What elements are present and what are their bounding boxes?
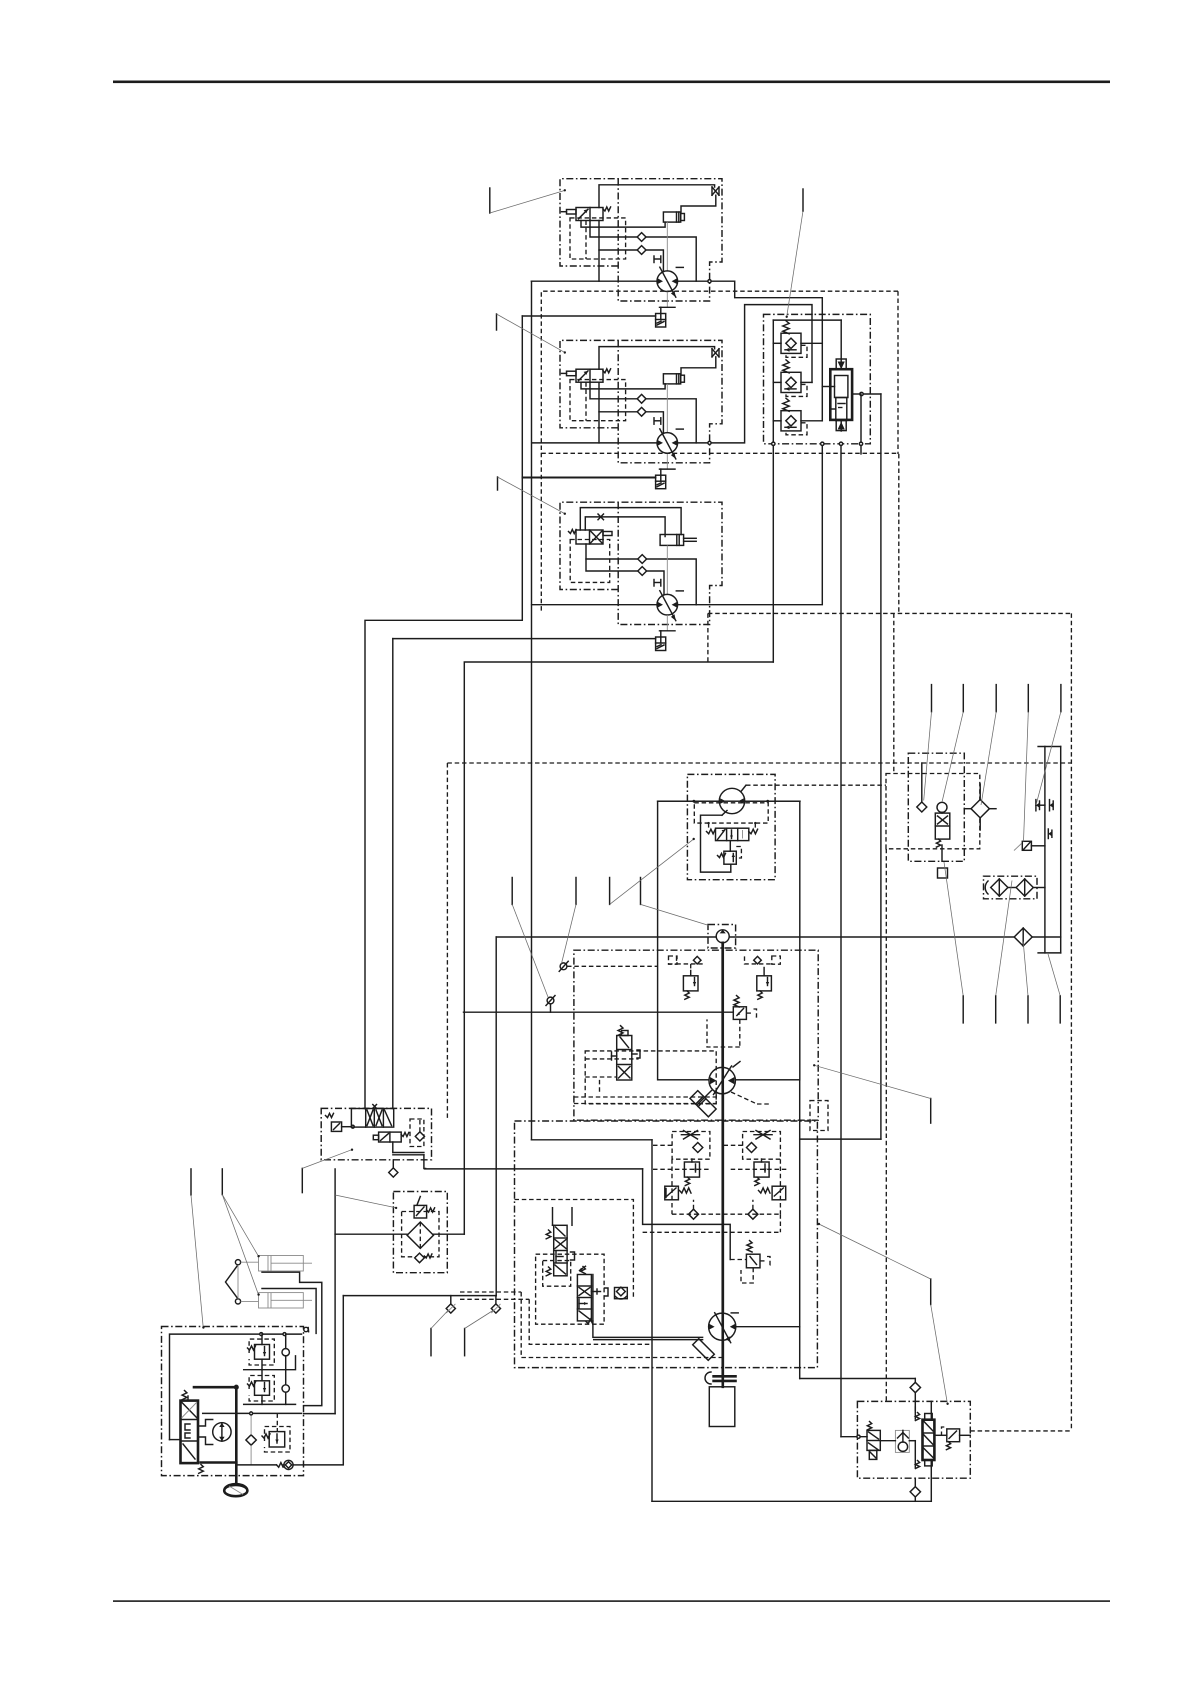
return filter diamond — [407, 1222, 433, 1248]
junction circles bus ends — [708, 280, 711, 283]
bus 2 to manifold P2 — [710, 305, 813, 443]
travel brake relief (centre) — [747, 1241, 752, 1253]
dashed drop to right control box — [893, 613, 895, 773]
steering cylinder 1 (grey) — [259, 1256, 304, 1272]
travel motor servo (angled) — [693, 1339, 715, 1361]
drain riser 2 — [392, 639, 394, 1109]
steering crossover line 1 — [244, 1356, 296, 1370]
throttle-check fitting 2 — [711, 349, 713, 357]
priority dashed box — [410, 1119, 424, 1147]
dashed bottom edge right — [970, 1430, 1071, 1432]
shaft marks 1 — [653, 256, 655, 263]
gear pump dash-dot box — [708, 925, 736, 949]
inline check to control — [547, 997, 554, 1004]
alpha label — [304, 1327, 308, 1331]
steering LS relief — [269, 1432, 285, 1447]
steering anti-shock check — [277, 1463, 284, 1468]
filter bypass diamond (right) — [971, 800, 989, 818]
spool inner notches — [838, 403, 845, 405]
main variable pump — [709, 1067, 735, 1093]
fan drive dash-dot enclosure — [687, 774, 775, 879]
leader lines centre — [511, 878, 513, 905]
pilot control valve stack (pump) — [617, 1036, 632, 1081]
charge spool valve (right) — [923, 1420, 935, 1460]
control dashed box C right edge lower — [898, 454, 900, 614]
throttle-check fitting 1 — [711, 187, 713, 195]
drain branch winch 2 — [522, 476, 655, 478]
steering LS gallery — [203, 1412, 302, 1414]
check valve 1a — [590, 221, 637, 238]
filter bypass relief — [414, 1205, 427, 1218]
block internal verticals — [914, 1407, 916, 1419]
right dashed control box — [886, 774, 980, 849]
winch supply bus 1 — [531, 280, 657, 282]
pressure gauge — [937, 802, 947, 812]
flushing drain line 2 — [522, 477, 655, 479]
steering inlet header — [170, 1334, 302, 1440]
stack2 side port bracket — [591, 1291, 600, 1293]
fan motor — [719, 788, 744, 813]
inner dashed box 2 travel — [536, 1254, 605, 1324]
filter dashed box — [402, 1212, 439, 1257]
inline check c2 — [495, 1296, 497, 1304]
steering relief 1 — [255, 1345, 270, 1360]
dashed gallery y=1169 — [653, 1168, 709, 1170]
priority drain diamond — [392, 1160, 394, 1169]
fan motor drain slant — [741, 785, 746, 791]
line valve to cylinder 2 — [581, 382, 665, 389]
return filter dash-dot enclosure — [393, 1192, 447, 1273]
fan valve pilot dashed box — [694, 803, 768, 823]
dashed gallery upper — [567, 965, 658, 967]
steering/brake feed line — [343, 1295, 496, 1297]
relief RV1 pilot dashed — [786, 345, 807, 357]
charge relief A — [693, 956, 701, 964]
winch motor M1 — [657, 271, 678, 292]
pump servo linkage dashes — [731, 1092, 757, 1104]
leaders to winch blocks — [489, 188, 491, 213]
leader lines bottom right — [962, 996, 964, 1023]
priority solenoid — [373, 1135, 378, 1140]
fan motor supply line — [658, 800, 720, 802]
pilot supply line 1 — [599, 185, 715, 208]
main return line with diamond — [496, 936, 1014, 938]
orbitrol spool stack — [181, 1401, 199, 1464]
winch relief valve RV1 — [783, 321, 789, 334]
steering linkage — [235, 1260, 240, 1265]
inline check c1 — [450, 1296, 452, 1304]
brake shaft link 2 — [666, 384, 668, 433]
motor coupling — [714, 1375, 736, 1378]
solenoid brake valve Y2 — [567, 371, 577, 376]
pilot supply line 2 — [599, 347, 715, 370]
thick feed to motor — [594, 1336, 703, 1338]
pilot lines winch 3 — [580, 508, 681, 535]
pump control line — [464, 1011, 734, 1013]
motor 3 case drain — [666, 615, 668, 631]
shaft marks 3 — [653, 580, 655, 587]
spool lower arrow — [840, 420, 842, 431]
gauge shutoff valve — [935, 813, 950, 839]
check valve 3b — [586, 559, 638, 571]
LS relief valve (centre) — [734, 996, 739, 1008]
pressure riser to travel circuit — [531, 281, 533, 1140]
bottom feed lines right — [800, 1378, 916, 1380]
leader to brake block — [931, 1305, 948, 1404]
spool right port drop line — [880, 394, 882, 1139]
return riser right — [495, 937, 497, 1296]
steering cylinder piping B — [262, 1289, 316, 1334]
manifold bottom ports — [772, 442, 775, 445]
travel shutoff subcircuit A — [672, 1132, 710, 1160]
block top diamond — [910, 1382, 920, 1392]
spring of valve Y1 — [603, 207, 611, 211]
winch supply bus 2 — [532, 442, 657, 444]
winch section 3 dash-dot enclosure — [560, 502, 722, 624]
travel relief B — [754, 1162, 769, 1177]
strainer diamond b — [1016, 879, 1033, 896]
winch relief valve RV3 — [783, 398, 789, 411]
steering return to filter — [304, 1296, 344, 1465]
main pump drive shaft — [721, 943, 724, 1068]
travel feed drop line — [651, 1140, 653, 1502]
priority outlet double line — [393, 1152, 424, 1154]
accumulator charge valve (left) — [867, 1430, 880, 1450]
pressure filter block dash-dot (right) — [908, 753, 964, 861]
brake cylinder 1 — [663, 212, 680, 222]
travel check valve (right of stack) — [615, 1288, 628, 1299]
case drain to dashed — [599, 1080, 601, 1094]
gearbox — [709, 1387, 735, 1427]
block bottom diamond — [910, 1487, 920, 1497]
motor case drain 1 — [666, 292, 668, 308]
breather check lower — [1047, 829, 1049, 839]
dashed links travel subcircuits — [652, 1144, 672, 1146]
winch section 2 dash-dot enclosure — [560, 340, 722, 462]
pilot dashed box winch 3 — [570, 540, 610, 583]
travel pilot valve stack 2 — [577, 1275, 591, 1321]
dashed pilot drops bottom-left — [460, 1291, 521, 1293]
right dashed enclosure (tank zone) — [1070, 613, 1072, 1431]
inline check upper — [560, 963, 567, 970]
motor case drain 2 — [666, 453, 668, 469]
accumulator charge check — [917, 802, 927, 812]
fan return loop — [701, 815, 731, 872]
control group dashed box (winch 1) — [541, 291, 898, 613]
steering cylinder piping A — [262, 1272, 322, 1405]
filter inlet riser / steering LS drop — [334, 1169, 336, 1414]
steering column shaft — [235, 1387, 238, 1484]
pilot line dashed box 1 — [570, 218, 626, 259]
dashed gallery y=1214 — [672, 1213, 780, 1215]
relief RV1 port lines — [773, 342, 781, 344]
relief RV2 pilot dashed — [786, 384, 807, 396]
control group dashed box (winch 2) — [541, 452, 898, 454]
winch motor M3 — [657, 594, 678, 615]
shaft marks 2 — [653, 418, 655, 424]
return check diamond — [1014, 928, 1032, 946]
dashed gallery y=1232 — [643, 1231, 781, 1233]
priority valve dash-dot enclosure — [321, 1108, 431, 1159]
fan relief valve — [729, 841, 731, 852]
priority to travel feed — [424, 1155, 426, 1169]
check valve 2b — [599, 382, 637, 412]
steering bottom thick line — [201, 1461, 237, 1464]
relief manifold drain risers — [772, 446, 774, 663]
priority valve spool sections — [351, 1109, 393, 1128]
travel motor — [709, 1313, 736, 1340]
manifold right port — [852, 393, 860, 395]
check valve 2a — [590, 382, 637, 399]
pilot line dashed box 2 — [570, 380, 626, 421]
dashed link to brake relief — [730, 1259, 746, 1261]
pump pilot dashed box — [585, 1051, 716, 1104]
steering unit dash-dot enclosure — [162, 1327, 304, 1476]
pump casing (solid) — [658, 801, 800, 1080]
gauge port square — [938, 868, 948, 878]
brake cylinder 2 — [663, 374, 680, 384]
charge check valve (grey box) — [895, 1430, 909, 1452]
block inner frame — [934, 1434, 946, 1436]
travel pilot dashed box — [543, 1261, 571, 1287]
brake cylinder winch 3 — [660, 535, 684, 546]
tank header from manifold — [464, 662, 773, 1234]
bus 3 to manifold bottom — [696, 444, 822, 605]
priority relief valve — [326, 1113, 334, 1117]
steering cylinder 2 (grey) — [259, 1293, 304, 1308]
brake shaft link 3 — [666, 545, 668, 594]
line valve to cylinder 1 — [581, 221, 665, 228]
brake charge block dash-dot enclosure — [857, 1401, 970, 1478]
leaders left middle — [301, 1168, 303, 1192]
travel motor drive shaft — [721, 1094, 724, 1387]
spool upper arrow — [840, 360, 842, 369]
filter thermal bypass — [415, 1253, 425, 1263]
drain line 2 — [598, 412, 600, 443]
spring of valve Y2 — [603, 369, 611, 373]
fan valve springs — [707, 829, 716, 834]
main pump dash-dot enclosure — [574, 950, 818, 1120]
winch section 1 dash-dot enclosure — [560, 179, 722, 301]
solenoid brake valve Y1 — [567, 210, 577, 215]
winch relief manifold dash-dot enclosure — [764, 314, 871, 443]
leaders bottom middle — [430, 1329, 432, 1356]
travel relief A — [684, 1162, 699, 1177]
travel pump dash-dot enclosure — [515, 1121, 818, 1368]
steering supply junction — [364, 1108, 366, 1110]
brake shaft link 1 — [666, 222, 668, 271]
steering tank line — [238, 1464, 276, 1466]
pump swash servo (angled cylinder) — [690, 1091, 716, 1117]
pilot gear pump — [716, 930, 729, 943]
travel pressure valve A — [665, 1186, 679, 1200]
leader lines top right — [931, 685, 933, 712]
gerotor housing lines — [198, 1420, 213, 1427]
unloading spool valve — [830, 369, 852, 420]
travel pilot valve stack 1 (left) — [552, 1208, 554, 1226]
pump drive shaft overdraw — [721, 943, 724, 1377]
gerotor metering unit — [213, 1423, 231, 1441]
steering feed thick lines — [194, 1386, 236, 1389]
relief RV3 port lines — [773, 420, 781, 422]
relief RV2 port lines — [773, 381, 781, 383]
flushing drain line 3 to tank header — [393, 638, 656, 640]
manifold left rail — [772, 320, 774, 444]
leaders steering — [221, 1169, 223, 1195]
filter inlet/outlet lines — [335, 1233, 407, 1235]
flushing valve 1 — [656, 314, 666, 328]
check valve 1b — [599, 221, 637, 251]
control group dashed box (winch 3) bottom — [708, 612, 1072, 614]
leaders pump block right — [930, 1099, 932, 1124]
steering wheel — [224, 1485, 247, 1496]
tank suction strainer pair dash-dot box — [984, 876, 1038, 899]
flushing valve 2 — [656, 475, 666, 489]
steering port circle 1 — [282, 1349, 289, 1356]
block relief valve — [947, 1429, 960, 1442]
leader to manifold — [787, 211, 803, 317]
steering return line — [244, 1403, 296, 1405]
travel shutoff subcircuit B — [743, 1132, 781, 1160]
page bottom rule — [113, 1600, 1110, 1602]
servo sense dashed box (right of pump box) — [810, 1101, 828, 1131]
steering relief 2 — [255, 1381, 270, 1396]
drain line 1 — [598, 250, 600, 281]
travel line from block bottom — [652, 1500, 931, 1502]
dashed LS lines lower — [574, 1096, 716, 1098]
leader dot at fan block — [693, 838, 695, 840]
fan control valve — [716, 828, 749, 840]
flushing drain line 1 — [522, 315, 655, 317]
steering check diamond — [246, 1435, 256, 1445]
steering port circle 2 — [282, 1385, 289, 1392]
strainer diamond a — [991, 879, 1008, 896]
flushing valve 3 — [656, 637, 666, 651]
travel pressure valve B — [772, 1186, 786, 1200]
hydraulic tank bracket — [1038, 746, 1061, 748]
tank return riser (left) — [365, 316, 522, 1109]
relief RV3 pilot dashed — [786, 423, 807, 435]
inner dashed box travel — [515, 1200, 634, 1299]
orbitrol inner ports — [185, 1424, 190, 1430]
winch supply bus 3 — [532, 604, 657, 606]
hand brake valve (winch 3) — [569, 530, 577, 534]
manifold gallery lines — [811, 314, 813, 382]
winch motor M2 — [657, 433, 678, 454]
drain shutoff valve (right) — [1022, 841, 1031, 850]
breather check pair — [1035, 800, 1037, 811]
page top rule — [113, 81, 1110, 84]
bus 1 to manifold P1 — [710, 281, 823, 314]
check valve 3a — [586, 544, 638, 559]
charge relief B — [754, 956, 762, 964]
winch relief valve RV2 — [783, 360, 789, 373]
pilot pressure dashed drop line — [885, 849, 887, 1402]
travel feed lines — [425, 1168, 643, 1170]
inlet line to block — [841, 1436, 867, 1438]
tank zone dashed top (lower) — [447, 762, 1071, 764]
